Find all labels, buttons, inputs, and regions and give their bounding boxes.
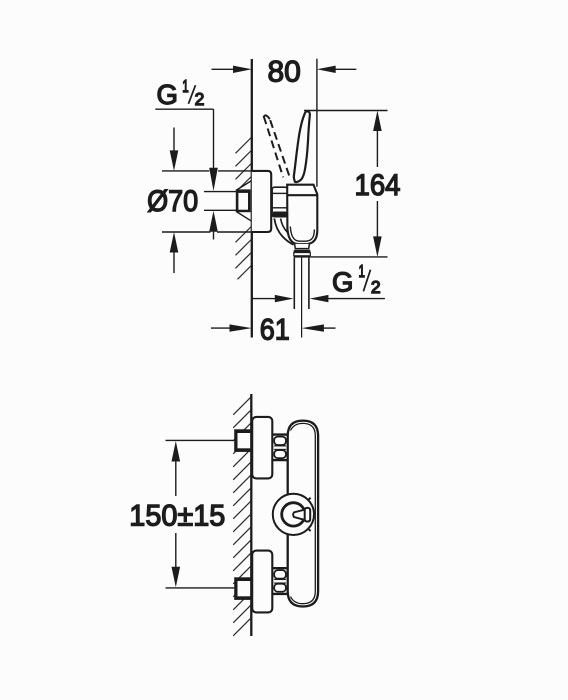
svg-text:G: G bbox=[157, 79, 178, 110]
svg-text:Ø70: Ø70 bbox=[147, 185, 198, 218]
countersink diagonal lower bbox=[236, 211, 252, 221]
dim G1/2 top bbox=[155, 76, 218, 240]
countersink diagonal upper bbox=[236, 181, 252, 191]
mixer body front view (capsule) bbox=[288, 421, 318, 607]
shower hose bbox=[294, 258, 309, 338]
escutcheon side view bbox=[252, 171, 271, 232]
svg-text:2: 2 bbox=[195, 89, 205, 109]
lower union nut front view bbox=[273, 568, 288, 594]
dim 164 bbox=[304, 111, 401, 257]
svg-text:1: 1 bbox=[359, 261, 366, 281]
mixer body rear curve inner bbox=[281, 219, 296, 239]
wall section line top view bbox=[251, 59, 253, 338]
countersink triangles (white mask) bbox=[236, 180, 253, 223]
knob handle cone bbox=[293, 509, 305, 520]
hose nut band dark upper bbox=[294, 250, 311, 253]
hose nut band light bbox=[294, 253, 311, 256]
dim 61 bbox=[211, 313, 336, 346]
outlet cone bbox=[295, 244, 310, 249]
body inner contour front view bbox=[291, 423, 316, 603]
control knob outer circle bbox=[273, 494, 314, 535]
dim Ø70 bbox=[147, 128, 252, 274]
dim 150±15 bbox=[129, 440, 234, 588]
lower escutcheon front view bbox=[252, 551, 272, 613]
lower wall union square bbox=[234, 577, 251, 600]
svg-text:150±15: 150±15 bbox=[129, 500, 225, 533]
dim G1/2 hose bbox=[252, 261, 385, 302]
knob handle cap bbox=[305, 508, 311, 522]
upper escutcheon front view bbox=[252, 417, 272, 479]
svg-text:164: 164 bbox=[355, 169, 401, 202]
control knob inner circle bbox=[282, 503, 305, 526]
svg-text:2: 2 bbox=[371, 277, 381, 297]
hatch wall front-view bbox=[233, 397, 251, 636]
svg-text:80: 80 bbox=[268, 55, 301, 88]
svg-text:G: G bbox=[332, 267, 353, 298]
wall section line front view bbox=[250, 394, 252, 636]
dim 80 bbox=[212, 55, 357, 187]
lever handle bbox=[294, 111, 310, 182]
knob tick upper bbox=[308, 498, 311, 501]
svg-text:61: 61 bbox=[260, 313, 290, 346]
upper union nut front view bbox=[273, 435, 288, 461]
body inner bottom contour bbox=[290, 227, 314, 242]
upper wall union square bbox=[234, 429, 251, 452]
svg-text:1: 1 bbox=[182, 76, 189, 96]
union nut side view bbox=[272, 187, 287, 217]
lever handle open position (dashed) bbox=[264, 115, 291, 178]
wall union box bbox=[236, 189, 251, 212]
mixer body side view bbox=[287, 185, 317, 244]
hatch wall top-view bbox=[236, 137, 252, 279]
mixer body rear curve outer bbox=[274, 219, 293, 245]
knob tick lower bbox=[308, 528, 311, 531]
supply pipe bbox=[204, 192, 236, 211]
hose nut band dark lower bbox=[294, 256, 311, 258]
